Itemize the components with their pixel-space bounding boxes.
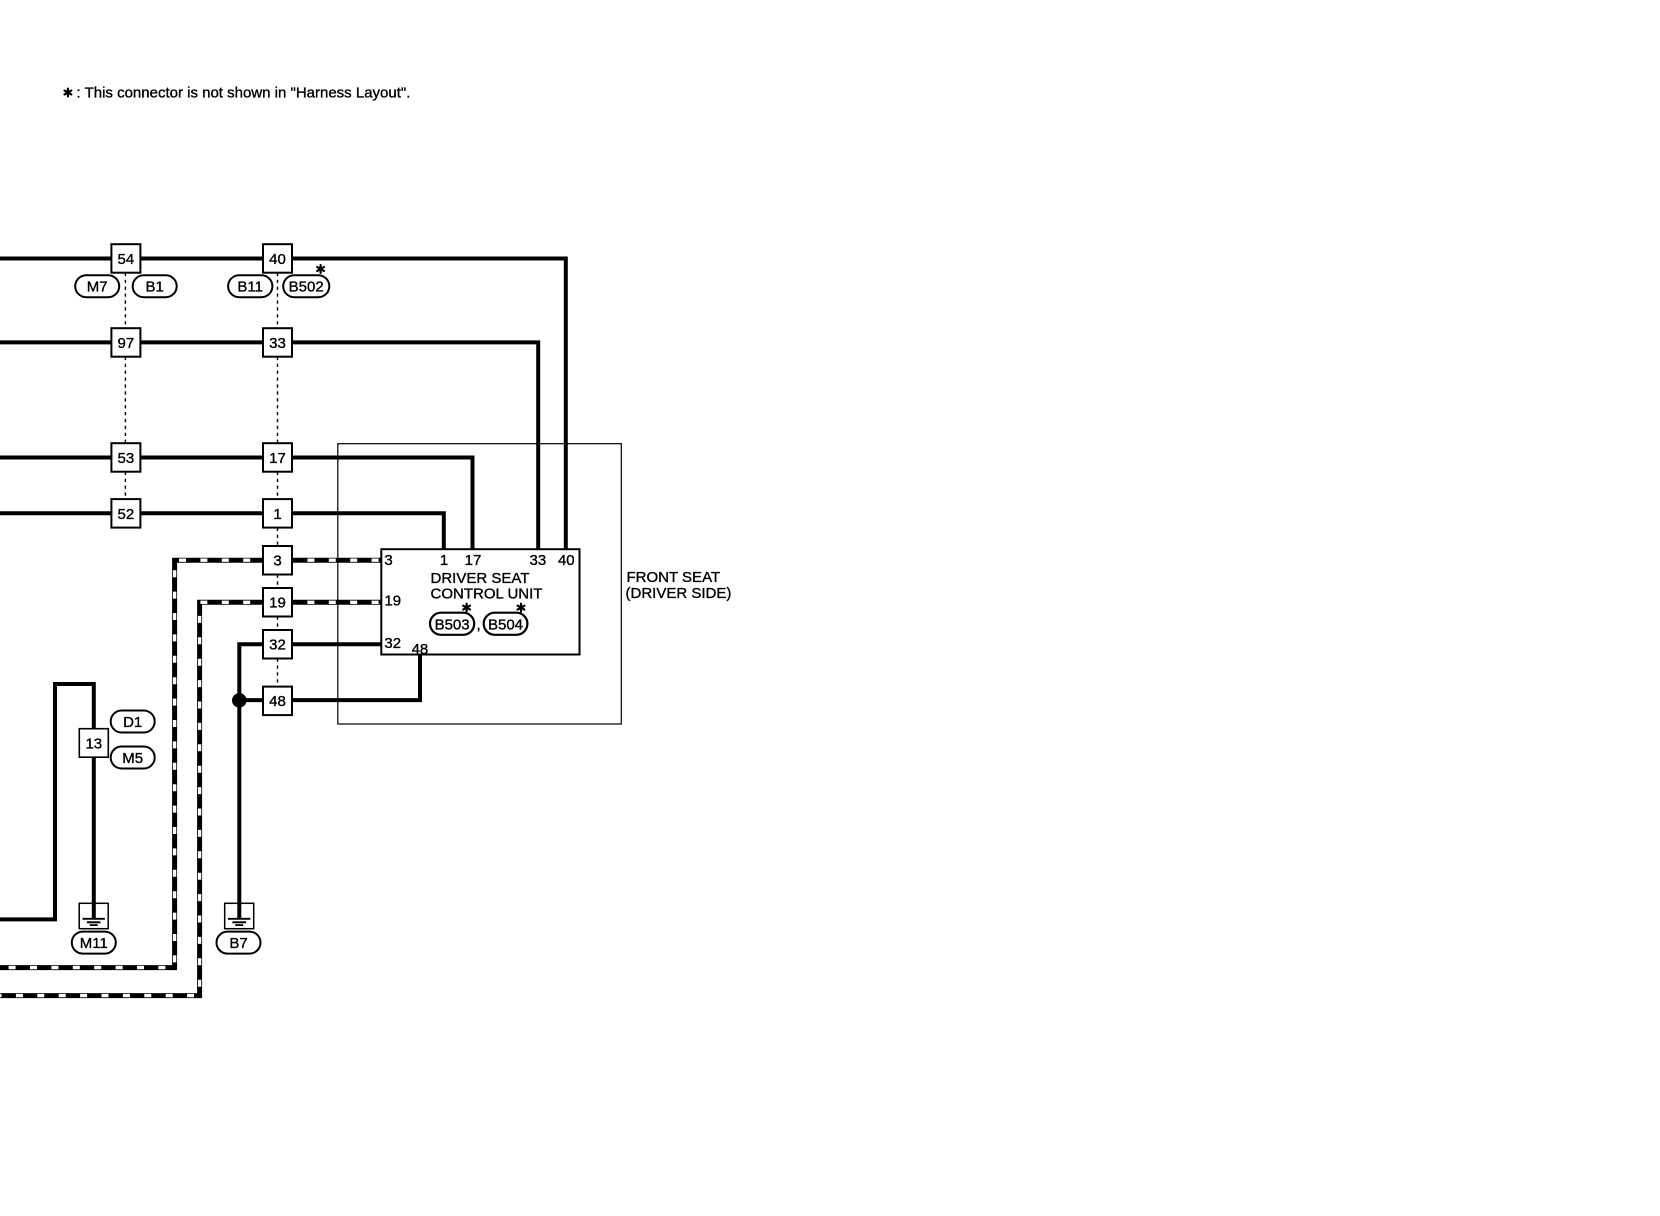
- svg-text:,: ,: [477, 616, 481, 633]
- svg-text:13: 13: [85, 735, 102, 752]
- svg-text:53: 53: [118, 450, 135, 467]
- connector box 53: [111, 443, 140, 472]
- connector box 97: [111, 328, 140, 357]
- dashed link 1-3: [277, 528, 279, 546]
- svg-text:M7: M7: [87, 279, 108, 296]
- svg-text:B11: B11: [237, 279, 263, 296]
- svg-text:M5: M5: [122, 750, 143, 767]
- driver seat control unit U1: [381, 549, 579, 658]
- asterisk for B504: [518, 604, 525, 612]
- connector box 52: [111, 499, 140, 527]
- ground symbol M11: [79, 903, 108, 928]
- connector oval M7: [75, 275, 119, 297]
- dashed link 33-17: [277, 357, 279, 444]
- connector box 1: [263, 499, 292, 527]
- svg-text:19: 19: [269, 595, 286, 612]
- connector box 54: [111, 244, 140, 273]
- svg-text:32: 32: [384, 635, 401, 652]
- svg-text:B504: B504: [488, 616, 523, 633]
- connector box 33: [263, 328, 292, 357]
- striped wire pin19: [0, 602, 382, 995]
- asterisk for B503: [463, 604, 470, 612]
- ground symbol B7: [225, 903, 254, 928]
- svg-text:3: 3: [384, 552, 392, 569]
- striped wire pin3: [0, 560, 382, 967]
- svg-text:B502: B502: [289, 279, 324, 296]
- dashed link 19-32: [277, 617, 279, 631]
- connector oval B502: [283, 275, 329, 297]
- junction node: [232, 693, 247, 708]
- connector box 32: [263, 630, 292, 659]
- connector oval M11: [72, 932, 116, 954]
- connector box 17: [263, 443, 292, 472]
- svg-text:CONTROL UNIT: CONTROL UNIT: [431, 585, 543, 602]
- dashed link 97-53: [124, 357, 126, 444]
- connector box 40: [263, 244, 292, 273]
- svg-text:40: 40: [269, 251, 286, 268]
- dashed link 54-97: [124, 273, 126, 329]
- svg-text:19: 19: [384, 593, 401, 610]
- connector oval B1: [133, 275, 177, 297]
- connector oval B503: [430, 613, 474, 635]
- dashed link 32-48: [277, 659, 279, 687]
- svg-text:B1: B1: [146, 279, 164, 296]
- svg-text:97: 97: [118, 335, 135, 352]
- svg-text:32: 32: [269, 637, 286, 654]
- wire pin48 branch: [239, 654, 420, 700]
- svg-text:1: 1: [273, 506, 281, 523]
- svg-text:1: 1: [440, 552, 448, 569]
- connector oval D1: [111, 711, 155, 733]
- svg-text:54: 54: [118, 251, 135, 268]
- svg-text:17: 17: [269, 450, 286, 467]
- dashed link 3-19: [277, 575, 279, 589]
- svg-text:3: 3: [273, 553, 281, 570]
- note text: [65, 85, 411, 102]
- wire 13 to M11 ground: [0, 684, 94, 919]
- svg-text:40: 40: [558, 552, 575, 569]
- wire pin32 to B7 ground: [239, 644, 381, 918]
- front seat (driver side) outline box: [338, 444, 622, 724]
- dashed link 40-33: [277, 273, 279, 329]
- wire 54-40 to pin 40: [0, 259, 566, 552]
- svg-text:FRONT SEAT: FRONT SEAT: [627, 569, 721, 586]
- connector box 19: [263, 588, 292, 617]
- wire 52-1 to pin 1: [0, 513, 444, 551]
- svg-text:B503: B503: [435, 616, 470, 633]
- svg-text:33: 33: [530, 552, 547, 569]
- svg-text:17: 17: [465, 552, 482, 569]
- connector oval B504: [484, 613, 528, 635]
- front seat label: [626, 569, 732, 602]
- svg-text:D1: D1: [123, 714, 142, 731]
- svg-text:M11: M11: [80, 935, 108, 952]
- connector box 48: [263, 687, 292, 716]
- dashed link 53-52: [124, 472, 126, 499]
- connector oval M5: [111, 747, 155, 769]
- svg-text:: This connector is not shown: : This connector is not shown in "Harnes…: [77, 85, 411, 102]
- svg-text:(DRIVER SIDE): (DRIVER SIDE): [626, 585, 732, 602]
- svg-text:48: 48: [412, 641, 429, 658]
- svg-text:52: 52: [118, 506, 135, 523]
- wire 53-17 to pin 17: [0, 458, 473, 552]
- dashed link 17-1: [277, 472, 279, 499]
- svg-text:33: 33: [269, 335, 286, 352]
- connector box 13: [79, 729, 108, 758]
- svg-text:48: 48: [269, 693, 286, 710]
- connector oval B11: [228, 275, 272, 297]
- asterisk for B502: [317, 265, 324, 273]
- connector oval B7: [217, 932, 261, 954]
- connector box 3: [263, 546, 292, 575]
- wire 97-33 to pin 33: [0, 342, 538, 551]
- svg-text:B7: B7: [229, 935, 247, 952]
